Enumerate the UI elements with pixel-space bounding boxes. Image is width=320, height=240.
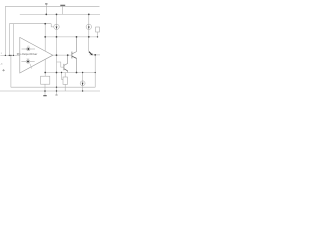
wire resistor R1 lead (44, 84, 46, 91)
node input bus a (5, 55, 6, 56)
node input bus c (10, 55, 11, 56)
wire H37 bias bus (45, 36, 97, 38)
node rail C (88, 14, 90, 16)
wire feedback right vertical (94, 55, 96, 87)
current source I4 inside U1 (22, 46, 35, 51)
wire resistor R2 bottom lead (64, 84, 66, 91)
svg-text:Pre-Output Driver: Pre-Output Driver (17, 52, 38, 56)
wire staircase to resistor R2 side (62, 73, 64, 80)
wire V89 mid (88, 30, 90, 37)
wire node bias vertical upper (44, 24, 46, 51)
wire V+ rail (20, 13, 100, 15)
node H72 e (82, 72, 83, 73)
wire W2 horizontal (9, 23, 51, 25)
wire diode D1 branch (88, 37, 90, 51)
node rail A (45, 14, 47, 16)
node rail- c (82, 90, 83, 91)
wire V56 lower (56, 30, 58, 91)
wire corner into current source I3 (82, 73, 84, 81)
wire node bias vertical lower (44, 59, 46, 76)
terminal pin B (60, 4, 65, 6)
wire pin D lead bottom (56, 91, 58, 95)
wire W2 tail into current source I1 (51, 24, 54, 27)
current source I1 (54, 24, 59, 29)
wire W3 vertical (12, 24, 14, 55)
resistor R2 (63, 77, 67, 84)
node rail B (56, 14, 58, 16)
svg-text:3: 3 (1, 53, 2, 55)
node rail- b (56, 90, 57, 91)
current source I2 (86, 24, 91, 29)
node dots (5, 14, 99, 92)
terminal pin C (43, 95, 46, 97)
diode D1 (89, 52, 93, 56)
node W2-bias (44, 23, 46, 25)
node H37 c (76, 36, 78, 38)
wire pin B lead (62, 6, 64, 14)
resistor R3 (96, 27, 100, 32)
node H37 b (56, 36, 58, 38)
transistor Q2 (lower driver) (57, 55, 68, 72)
node out b (67, 54, 69, 56)
current source I5 inside U1 (21, 59, 34, 69)
transistor Q1 (upper driver) (72, 37, 77, 73)
node H37 e (97, 36, 98, 37)
wire feedback down left (10, 55, 12, 87)
node H72 a (44, 72, 46, 74)
wire output from apex (53, 54, 72, 56)
node out a (56, 54, 58, 56)
wire output right (90, 54, 101, 56)
wire pin A lead (45, 4, 47, 14)
background (0, 0, 100, 100)
wire W2 left vertical (8, 24, 10, 56)
node H37 a (44, 36, 46, 38)
op-amp U1 pre-output driver triangle (20, 37, 53, 73)
wire feedback bottom horizontal (11, 86, 95, 88)
terminal pin A (45, 3, 47, 5)
current source I3 (80, 81, 85, 86)
wire current source I3 to rail (82, 86, 84, 91)
node H72 f (95, 72, 96, 73)
wire top bus W1 horizontal (5, 5, 99, 7)
node H37 d (88, 36, 90, 38)
svg-text:Q1: Q1 (27, 46, 29, 48)
terminal pin D (55, 94, 57, 96)
wire H72 bus (45, 72, 95, 74)
node H72 d (61, 72, 62, 73)
wire V56 upper (56, 14, 58, 24)
svg-text:Q2: Q2 (27, 59, 29, 61)
node input bus b (9, 55, 10, 56)
wire V- rail (0, 90, 100, 92)
wire resistor R2 top lead (64, 73, 66, 78)
resistor R1 (41, 76, 50, 84)
node H72 c (76, 72, 78, 74)
wire W1 left vertical (4, 6, 6, 55)
label + mark (2, 69, 5, 71)
svg-text:-In: -In (0, 63, 2, 65)
node feedback cross (56, 87, 57, 88)
wire pin C lead bottom (44, 91, 46, 95)
node input bus d (13, 55, 14, 56)
node H72 b (56, 72, 58, 74)
wire V89 upper (88, 14, 90, 24)
node out right (94, 54, 96, 56)
node rail- a (44, 90, 46, 92)
wire resistor R3 lead (97, 32, 99, 37)
wire input line left (0, 54, 19, 56)
